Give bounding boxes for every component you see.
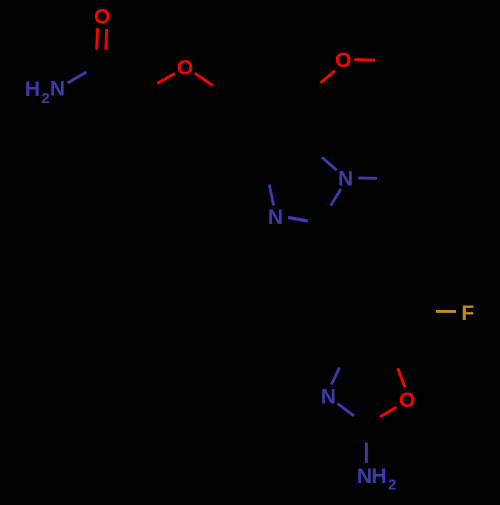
svg-text:O: O (177, 57, 193, 80)
bond N1-CH3 half (358, 177, 377, 180)
svg-text:2: 2 (388, 477, 396, 494)
bond O3-C7(ring) half (321, 71, 335, 83)
svg-text:O: O (94, 6, 110, 29)
bond N3-C3a half (269, 185, 273, 206)
svg-text:N: N (357, 465, 372, 488)
svg-text:O: O (399, 389, 415, 412)
bond O3-CH3 half (354, 58, 375, 62)
svg-text:F: F (461, 302, 474, 325)
svg-text:N: N (268, 206, 283, 229)
bond N1-C7a half (322, 157, 337, 170)
bond O2-CH2 half (157, 73, 175, 83)
double bond C=O1 line right (104, 29, 108, 50)
double bond C=O1 line left (97, 28, 98, 49)
bond C2ox-NH2 half (365, 443, 368, 463)
bond Oox-C7a half (398, 368, 405, 387)
svg-text:N: N (321, 386, 336, 409)
svg-text:N: N (338, 168, 353, 191)
svg-text:H: H (371, 465, 386, 488)
bond H2N-C half (68, 72, 87, 83)
double bond Nox=C2ox half (338, 404, 355, 417)
bond Nox-C3a half (331, 368, 339, 385)
bond N1-C2 half (331, 189, 341, 206)
svg-text:N: N (50, 78, 65, 101)
svg-text:H: H (25, 78, 40, 101)
bond Oox-C2ox half (380, 407, 396, 417)
bond C-F half (436, 310, 456, 313)
svg-text:O: O (335, 49, 351, 72)
svg-text:2: 2 (41, 90, 49, 107)
bond O2-C5(ring) half (195, 73, 213, 85)
double bond N3=C2 half (288, 218, 308, 222)
